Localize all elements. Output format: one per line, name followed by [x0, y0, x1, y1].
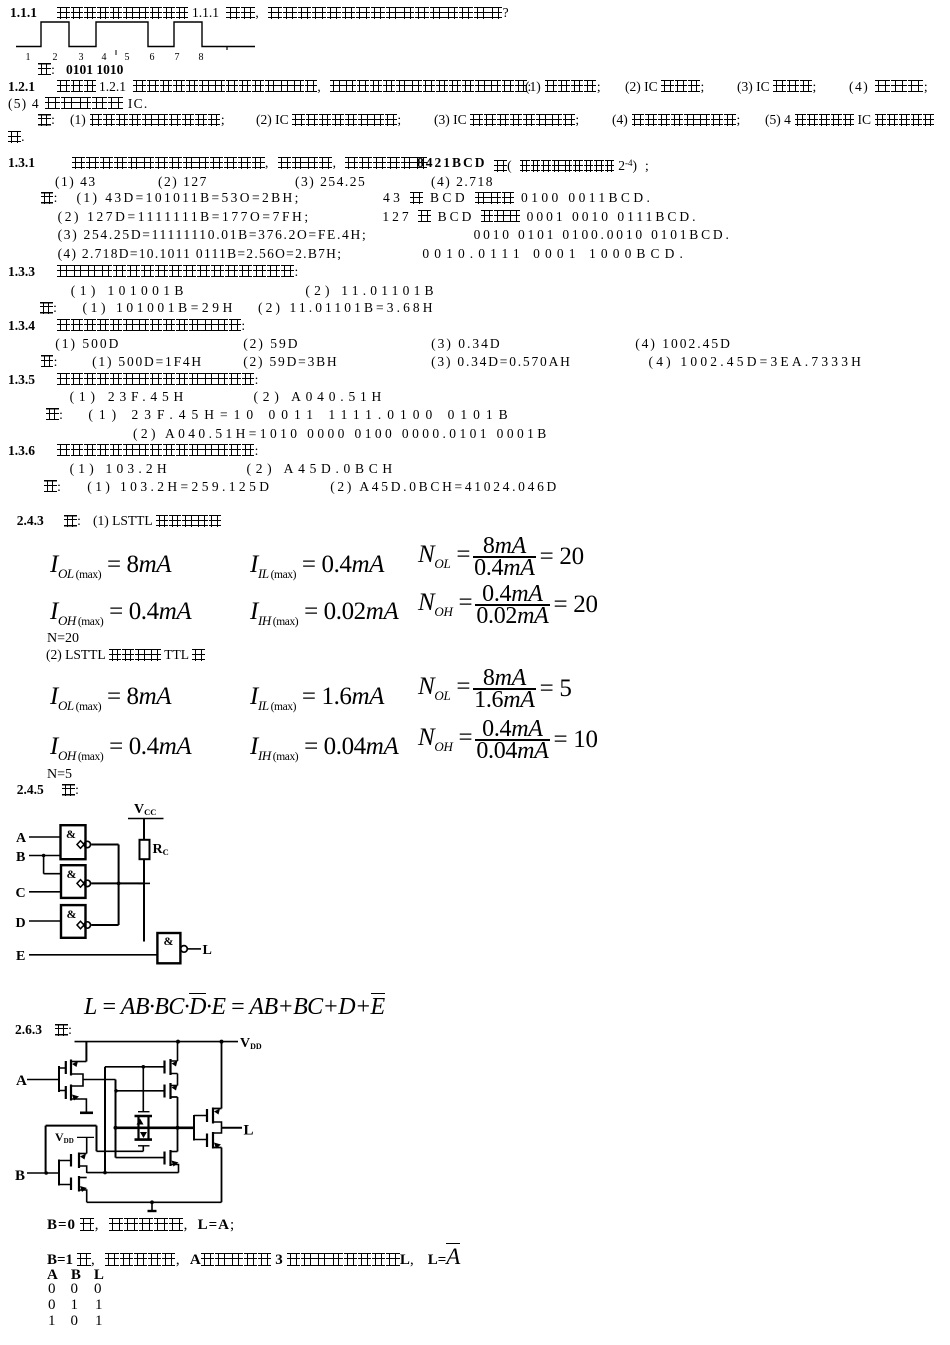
svg-text:1: 1 [26, 52, 31, 62]
svg-text:VDD: VDD [55, 1130, 74, 1145]
svg-text:L: L [203, 943, 212, 958]
svg-text:5: 5 [125, 52, 130, 62]
svg-text:&: & [67, 867, 77, 881]
svg-text:6: 6 [150, 52, 155, 62]
svg-text:L: L [244, 1123, 254, 1139]
svg-text:RC: RC [153, 842, 169, 857]
svg-text:&: & [67, 907, 77, 921]
svg-text:VDD: VDD [240, 1036, 262, 1051]
svg-text:D: D [16, 916, 26, 931]
svg-text:&: & [66, 827, 76, 841]
svg-text:3: 3 [79, 52, 84, 62]
svg-text:4: 4 [102, 52, 107, 62]
svg-text:A: A [16, 1073, 27, 1089]
svg-text:B: B [15, 1168, 25, 1184]
svg-text:VCC: VCC [134, 802, 156, 817]
svg-text:E: E [16, 949, 25, 964]
svg-text:A: A [16, 831, 27, 846]
svg-text:8: 8 [199, 52, 204, 62]
svg-text:C: C [16, 886, 26, 901]
svg-text:2: 2 [53, 52, 58, 62]
svg-text:&: & [164, 934, 174, 948]
svg-text:7: 7 [175, 52, 180, 62]
svg-text:B: B [16, 850, 25, 865]
